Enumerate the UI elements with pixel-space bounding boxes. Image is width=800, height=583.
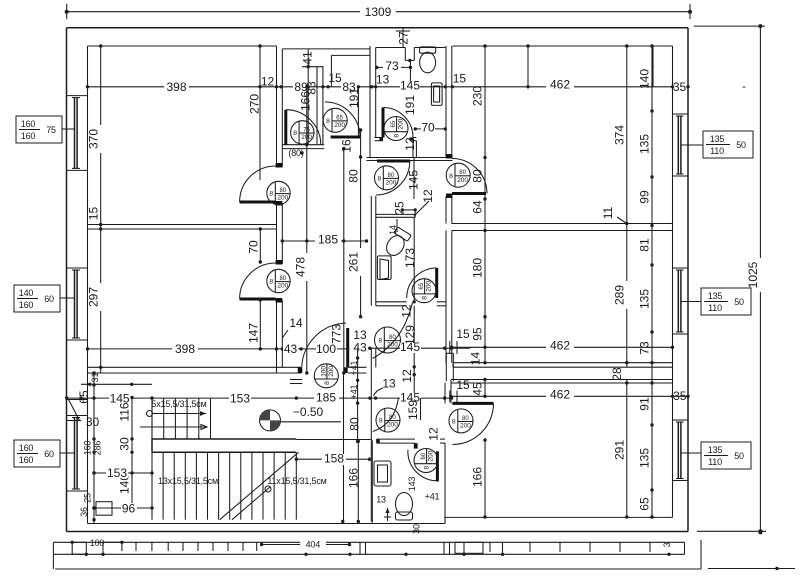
window label 135/110 50 #2 <box>701 288 751 315</box>
svg-text:135: 135 <box>638 134 652 154</box>
stair arrow upper <box>140 426 207 428</box>
balcony pillar right <box>455 542 483 553</box>
bathroom2 door leaf <box>331 136 361 139</box>
sink top <box>431 83 442 106</box>
level mark -0.50 <box>260 410 281 431</box>
svg-text:200: 200 <box>460 423 471 430</box>
svg-text:200: 200 <box>334 122 345 129</box>
svg-text:404: 404 <box>306 540 321 550</box>
svg-text:270: 270 <box>248 94 262 114</box>
balcony railing ticks <box>121 542 123 551</box>
lobby inner walls <box>302 66 323 68</box>
wc door jambs <box>380 138 384 141</box>
svg-text:43: 43 <box>284 342 298 356</box>
balcony pillar left <box>72 542 86 554</box>
window left 3 <box>67 415 88 417</box>
svg-text:13: 13 <box>376 495 386 505</box>
dim chain x360 (80/261) <box>360 130 362 317</box>
dim 185 corridor <box>282 240 366 242</box>
bottom bathroom entrance arc <box>452 403 493 444</box>
svg-text:8: 8 <box>269 191 273 198</box>
svg-text:398: 398 <box>175 342 195 356</box>
dim 153 line <box>94 472 152 474</box>
svg-text:15: 15 <box>87 207 101 221</box>
svg-text:297: 297 <box>87 287 101 307</box>
svg-text:8: 8 <box>452 419 456 426</box>
bottom bathroom door circle <box>414 449 438 473</box>
bathroom1 door arc <box>286 110 321 145</box>
dim 25 pier <box>402 209 415 211</box>
svg-text:12: 12 <box>403 137 417 151</box>
left room2 bottom wall / stair hall top wall <box>88 366 302 368</box>
svg-text:25: 25 <box>83 493 93 503</box>
window right 2 <box>673 267 689 269</box>
dim 462 #2 (middle room) <box>452 346 673 348</box>
bottom bathroom walls <box>371 440 373 523</box>
svg-text:230: 230 <box>471 86 485 106</box>
svg-text:370: 370 <box>87 129 101 149</box>
bathroom1 door leaf <box>284 110 287 145</box>
stair upper flight <box>151 398 153 439</box>
svg-text:13: 13 <box>382 377 396 391</box>
balcony dim 404 <box>262 544 350 546</box>
corridor right wall <box>370 196 372 306</box>
svg-text:81: 81 <box>638 238 652 252</box>
middle bathroom door leaf <box>377 160 410 163</box>
dim chain x652 (140..65) <box>651 46 653 517</box>
middle bathroom door arc <box>376 161 410 195</box>
corridor door to mid apartment arc <box>373 303 413 359</box>
window right 3 <box>673 419 689 421</box>
door room2 leaf <box>240 298 276 301</box>
svg-text:−0.50: −0.50 <box>293 405 324 419</box>
center-right wall <box>445 46 447 158</box>
balcony dim 100 <box>71 541 74 544</box>
wall pier mid <box>445 353 447 381</box>
svg-text:65: 65 <box>638 497 652 511</box>
svg-text:43: 43 <box>353 341 367 355</box>
svg-text:291: 291 <box>612 440 626 460</box>
dim 70 left wall doors <box>259 229 261 262</box>
door room2 circle <box>267 269 290 292</box>
balcony dots <box>304 553 307 556</box>
balcony outline <box>53 541 684 543</box>
svg-text:45: 45 <box>471 382 485 396</box>
svg-text:11: 11 <box>601 206 615 219</box>
door J jambs <box>298 367 303 373</box>
middle bathroom sink <box>377 256 391 280</box>
svg-text:80: 80 <box>462 415 469 422</box>
svg-text:398: 398 <box>166 80 186 94</box>
svg-text:65: 65 <box>390 121 397 128</box>
svg-text:286: 286 <box>93 441 103 456</box>
svg-text:143: 143 <box>407 477 417 492</box>
dim 158 <box>296 458 369 460</box>
svg-text:191: 191 <box>403 95 417 115</box>
wc door leaf <box>382 108 385 138</box>
svg-text:180: 180 <box>471 258 485 278</box>
svg-text:30: 30 <box>412 524 422 534</box>
svg-text:8: 8 <box>324 381 331 385</box>
balcony dividers <box>359 542 361 554</box>
svg-text:31: 31 <box>90 373 100 383</box>
door jambs room1 <box>276 163 283 168</box>
stair dim chain y397 <box>94 397 452 399</box>
svg-text:73: 73 <box>638 341 652 355</box>
svg-text:60: 60 <box>44 449 54 459</box>
door room2 arc <box>240 263 276 299</box>
svg-text:5x15,5/31,5см: 5x15,5/31,5см <box>151 399 206 409</box>
window left 1 <box>67 95 88 97</box>
window label 135/110 50 #3 <box>701 442 751 469</box>
svg-text:30: 30 <box>86 415 100 429</box>
dim 462 #3 (bottom room) <box>451 395 688 397</box>
svg-text:110: 110 <box>710 146 724 156</box>
bottom bathroom entrance leaf <box>452 402 493 405</box>
svg-text:8: 8 <box>378 338 382 345</box>
svg-text:200: 200 <box>277 283 288 290</box>
dim 140 right top <box>652 46 654 87</box>
wc door 65 arc <box>383 108 413 138</box>
svg-text:+41: +41 <box>349 384 359 399</box>
dim chain left x100 <box>100 46 102 373</box>
middle bathroom door2 leaf <box>435 268 438 298</box>
outer wall inner faces <box>88 45 277 47</box>
lobby top wall <box>282 48 370 50</box>
middle bathroom door2 arc <box>407 268 437 298</box>
svg-text:-: - <box>742 79 746 93</box>
bathroom2 door arc <box>325 102 360 137</box>
svg-text:+41: +41 <box>349 360 359 375</box>
stair 5x underline <box>147 411 153 417</box>
svg-text:116: 116 <box>118 402 132 421</box>
svg-text:478: 478 <box>293 257 307 277</box>
svg-text:159: 159 <box>406 400 420 420</box>
wc top vent dim 27 <box>402 28 404 48</box>
stair hall door arc <box>373 398 399 431</box>
door F jambs <box>446 154 452 159</box>
ground line <box>55 568 701 570</box>
bottom-right room left wall <box>444 383 446 403</box>
svg-text:200: 200 <box>386 179 397 186</box>
svg-text:64: 64 <box>471 200 485 214</box>
dim 230 line top <box>527 46 529 87</box>
svg-text:3: 3 <box>662 542 672 547</box>
bottom bath door jamb <box>376 439 380 443</box>
svg-text:50: 50 <box>734 451 744 461</box>
svg-text:8: 8 <box>379 418 383 425</box>
svg-text:80: 80 <box>389 334 396 341</box>
stair hall top wall pier <box>290 379 302 381</box>
svg-text:153: 153 <box>107 466 127 480</box>
svg-text:100: 100 <box>320 366 327 377</box>
svg-text:73: 73 <box>385 59 399 73</box>
svg-text:95: 95 <box>471 327 485 341</box>
svg-text:15: 15 <box>456 327 470 341</box>
svg-text:12: 12 <box>400 304 414 318</box>
svg-text:70: 70 <box>421 121 435 135</box>
dim 70 <box>415 128 445 130</box>
svg-text:35: 35 <box>673 389 687 403</box>
dim 145 mid <box>370 347 470 349</box>
svg-text:462: 462 <box>550 339 570 353</box>
svg-text:110: 110 <box>708 457 722 467</box>
svg-text:1025: 1025 <box>746 261 760 288</box>
right dimension line 1025 <box>759 26 761 532</box>
corridor door circle 80/200 <box>375 327 401 353</box>
svg-text:12: 12 <box>400 369 414 383</box>
svg-text:12: 12 <box>427 427 441 441</box>
svg-text:80: 80 <box>471 169 485 183</box>
middle bathroom walls <box>376 213 415 215</box>
svg-text:166: 166 <box>298 91 312 111</box>
svg-text:135: 135 <box>638 448 652 468</box>
svg-text:8: 8 <box>269 279 273 286</box>
svg-text:65: 65 <box>418 283 425 290</box>
wc duct <box>404 48 406 61</box>
stair diagonal <box>220 452 299 519</box>
top-right room bottom wall <box>452 223 673 225</box>
middle bathroom toilet <box>383 227 411 259</box>
apartment entrance door circle <box>314 364 338 388</box>
entrance door jambs <box>67 399 88 401</box>
top right room door leaf <box>452 192 486 195</box>
svg-text:65: 65 <box>336 114 343 121</box>
svg-text:80: 80 <box>279 275 286 282</box>
svg-text:374: 374 <box>612 125 626 145</box>
outer wall <box>67 27 689 29</box>
svg-text:462: 462 <box>550 388 570 402</box>
dim line y521 <box>341 520 344 523</box>
window label 160/160 75 <box>16 116 62 143</box>
window right 1 <box>673 113 689 115</box>
dim chain x485 (230/80/64/180/95/45/166) <box>484 46 486 158</box>
svg-text:+41: +41 <box>425 492 440 502</box>
svg-text:96: 96 <box>122 502 136 516</box>
svg-text:135: 135 <box>710 134 725 144</box>
svg-text:160: 160 <box>83 441 93 456</box>
svg-text:200: 200 <box>387 342 398 349</box>
svg-text:16: 16 <box>340 139 354 153</box>
landing right line <box>296 439 371 441</box>
svg-text:462: 462 <box>550 78 570 92</box>
door room1 circle <box>267 181 290 204</box>
dim 147 <box>259 300 261 349</box>
svg-text:12: 12 <box>421 189 435 203</box>
svg-text:(80): (80) <box>288 148 303 158</box>
svg-text:200: 200 <box>398 118 405 129</box>
window left 2 <box>67 267 88 269</box>
svg-text:135: 135 <box>708 291 723 301</box>
svg-text:160: 160 <box>19 300 34 310</box>
svg-text:41: 41 <box>301 51 315 65</box>
svg-text:147: 147 <box>246 323 260 343</box>
svg-text:135: 135 <box>708 445 723 455</box>
dim y398 left ext <box>67 397 94 399</box>
svg-text:15: 15 <box>328 71 342 85</box>
stair chain x132 <box>131 398 133 509</box>
svg-text:166: 166 <box>471 467 485 487</box>
svg-text:8: 8 <box>449 173 453 180</box>
svg-text:99: 99 <box>638 190 652 204</box>
svg-text:160: 160 <box>19 443 34 453</box>
svg-text:80: 80 <box>459 169 466 176</box>
door jambs room2 <box>276 260 283 265</box>
middle-right room bottom wall <box>453 362 673 364</box>
wc top walls <box>375 48 377 138</box>
svg-text:15: 15 <box>453 72 467 86</box>
dim 80 y152 <box>300 151 303 154</box>
svg-text:8: 8 <box>326 118 330 125</box>
stairwell partition wall <box>343 373 345 522</box>
middle bathroom door2 circle <box>412 279 436 303</box>
wc top toilet <box>420 47 436 73</box>
corridor left wall <box>276 46 278 167</box>
dim chain top y87 <box>88 86 281 88</box>
wc door 65 circle <box>384 117 408 141</box>
stair landing <box>152 438 296 440</box>
svg-text:100: 100 <box>90 538 105 548</box>
top right room door arc <box>452 159 487 194</box>
stair circle mark <box>265 486 271 492</box>
door room1 leaf <box>240 201 276 204</box>
svg-text:160: 160 <box>21 131 36 141</box>
stair left chain x94 <box>93 373 95 524</box>
svg-text:185: 185 <box>316 391 336 405</box>
svg-text:200: 200 <box>428 450 435 461</box>
svg-text:100: 100 <box>316 342 336 356</box>
svg-text:1309: 1309 <box>365 5 392 19</box>
svg-text:80: 80 <box>279 187 286 194</box>
svg-text:140: 140 <box>638 69 652 89</box>
dim chain y348 (398/43/100) <box>88 348 348 350</box>
bathroom1 bottom wall <box>282 144 324 146</box>
svg-text:140: 140 <box>19 288 34 298</box>
svg-text:110: 110 <box>708 303 722 313</box>
stair lower flight <box>151 452 153 519</box>
bathroom2 door circle <box>323 108 347 132</box>
window label 135/110 50 #1 <box>703 131 753 158</box>
svg-text:8: 8 <box>424 466 431 470</box>
dim chain x306 (478) <box>306 87 308 373</box>
svg-text:60: 60 <box>44 294 54 304</box>
svg-text:14: 14 <box>289 316 303 330</box>
dim 41 lobby <box>307 49 309 87</box>
svg-text:145: 145 <box>400 340 420 354</box>
bottom bathroom door leaf <box>436 451 439 481</box>
middle-right room left wall <box>445 231 447 363</box>
svg-text:91: 91 <box>638 397 652 411</box>
svg-text:200: 200 <box>387 422 398 429</box>
svg-text:200: 200 <box>328 366 335 377</box>
dim 96 line <box>94 507 152 509</box>
stair hall door circle <box>376 408 400 432</box>
svg-text:191: 191 <box>347 88 361 108</box>
svg-text:13x15,5/31,5см: 13x15,5/31,5см <box>158 476 218 486</box>
middle bathroom door circle <box>375 166 399 190</box>
svg-text:50: 50 <box>734 297 744 307</box>
wall between left rooms <box>88 224 278 226</box>
dim 173 bathroom <box>413 217 415 301</box>
svg-text:11x15,5/31,5см: 11x15,5/31,5см <box>267 476 326 486</box>
svg-text:8: 8 <box>377 175 381 182</box>
svg-text:80: 80 <box>347 169 361 183</box>
svg-text:50: 50 <box>736 140 746 150</box>
svg-text:773: 773 <box>330 324 344 344</box>
svg-text:65: 65 <box>77 390 91 404</box>
bathroom1 door circle <box>291 121 314 144</box>
svg-text:160: 160 <box>19 455 34 465</box>
svg-text:14: 14 <box>469 352 483 366</box>
svg-text:200: 200 <box>457 177 468 184</box>
svg-text:160: 160 <box>21 119 36 129</box>
dim chain x627 (374/289/291) <box>626 46 628 224</box>
svg-text:200: 200 <box>426 281 433 292</box>
bottom bathroom entrance circle <box>449 409 473 433</box>
svg-text:28: 28 <box>610 367 624 381</box>
svg-text:158: 158 <box>324 452 344 466</box>
svg-text:289: 289 <box>612 285 626 305</box>
svg-text:261: 261 <box>347 252 361 272</box>
apartment entrance door leaf <box>346 328 349 367</box>
dim chain x343 (773) <box>343 149 345 373</box>
door room1 arc <box>240 166 276 202</box>
bottom bathroom door arc <box>408 450 438 481</box>
dim 73 <box>377 66 411 68</box>
svg-text:75: 75 <box>46 125 56 135</box>
svg-text:27: 27 <box>397 31 411 45</box>
svg-text:135: 135 <box>638 289 652 309</box>
dim 270 vertical <box>259 46 261 87</box>
entrance step <box>96 502 112 516</box>
svg-text:35: 35 <box>673 80 687 94</box>
svg-text:60: 60 <box>420 453 427 460</box>
corridor chain x357 <box>357 348 359 441</box>
svg-text:200: 200 <box>277 195 288 202</box>
svg-text:36: 36 <box>79 507 89 517</box>
svg-text:153: 153 <box>230 391 250 405</box>
svg-text:80: 80 <box>388 172 395 179</box>
svg-text:8: 8 <box>293 130 297 137</box>
apartment entrance door arc <box>302 323 346 367</box>
top right room door circle <box>446 163 470 187</box>
entrance door diagonal leaf <box>69 400 80 421</box>
window label 140/160 60 <box>14 285 60 312</box>
dim 83 small <box>316 67 318 87</box>
svg-text:8: 8 <box>394 134 401 138</box>
svg-text:70: 70 <box>246 240 260 254</box>
bottom bathroom sink <box>374 461 391 486</box>
svg-text:185: 185 <box>318 233 338 247</box>
bottom bathroom toilet <box>396 493 413 521</box>
svg-text:80: 80 <box>348 417 362 431</box>
svg-text:15: 15 <box>456 378 470 392</box>
ground line right <box>708 568 795 570</box>
top dimension line 1309 <box>67 11 690 13</box>
svg-text:13: 13 <box>376 73 390 87</box>
dim 191 <box>357 87 359 137</box>
dim line y384 <box>81 383 152 385</box>
svg-text:12: 12 <box>261 75 275 89</box>
svg-text:25: 25 <box>393 201 407 215</box>
svg-text:145: 145 <box>400 79 420 93</box>
window label 160/160 60 <box>14 440 60 467</box>
svg-text:173: 173 <box>403 248 417 268</box>
svg-text:8: 8 <box>422 296 429 300</box>
svg-text:30: 30 <box>118 437 132 451</box>
